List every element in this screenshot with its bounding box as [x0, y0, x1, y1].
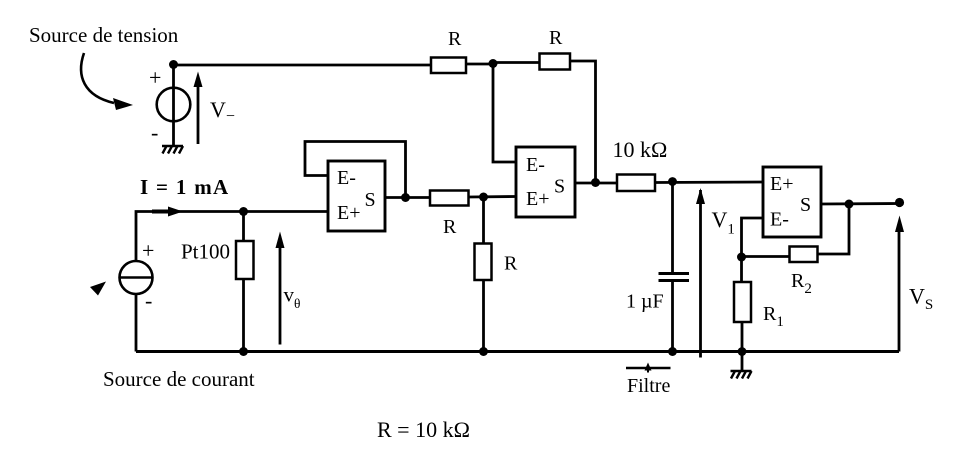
svg-text:R: R	[549, 27, 563, 49]
svg-text:10 kΩ: 10 kΩ	[613, 137, 668, 162]
wire top rail left (node A to resistor R)	[174, 64, 432, 67]
svg-text:E-: E-	[526, 154, 545, 176]
wire Pt100 to rail	[242, 279, 245, 352]
svg-text:S: S	[365, 189, 376, 211]
svg-text:E+: E+	[526, 188, 550, 210]
wire R middle to U2 E+	[469, 195, 517, 198]
node E (filter node)	[668, 177, 677, 186]
ground (below voltage source)	[162, 146, 183, 154]
wire node F down to R1	[740, 257, 743, 282]
label Source de courant	[103, 367, 255, 391]
current source minus sign	[145, 288, 152, 313]
wire vertical through voltage source to ground	[172, 65, 175, 146]
node B (top of Pt100)	[239, 207, 248, 216]
wire current source bottom to rail	[135, 294, 138, 352]
svg-text:E-: E-	[337, 167, 356, 189]
wire current source top to node B	[136, 212, 328, 262]
resistor R2	[790, 247, 818, 263]
node U2 output	[591, 178, 600, 187]
wire R2 to U3 output	[818, 204, 850, 254]
arrow V-	[197, 84, 200, 144]
svg-text:E+: E+	[337, 202, 361, 224]
current source circle	[120, 261, 153, 294]
wire vertical R to rail	[482, 280, 485, 352]
wire U2 output	[575, 182, 617, 185]
node capacitor bottom	[668, 347, 677, 356]
svg-text:Pt100: Pt100	[181, 240, 230, 264]
arrow VS	[898, 231, 901, 352]
svg-text:E-: E-	[770, 209, 789, 231]
wire U3 E- to feedback node	[742, 218, 764, 257]
label Filtre	[627, 375, 670, 397]
node R1 bottom	[738, 347, 747, 356]
svg-text:1 µF: 1 µF	[626, 291, 664, 313]
resistor R (middle horizontal)	[430, 191, 469, 206]
voltage source minus sign	[151, 120, 158, 145]
op-amp U3 box	[763, 167, 821, 237]
wire node D down to vertical R	[482, 197, 485, 244]
node vertical R bottom	[479, 347, 488, 356]
label I = 1 mA	[140, 175, 229, 199]
arrow Vtheta	[279, 245, 282, 345]
resistor 10 kOhm	[617, 175, 655, 192]
svg-text:S: S	[554, 176, 565, 198]
wire 10k to U3 E+	[655, 181, 763, 184]
node F (feedback node)	[737, 253, 746, 262]
node U3 output	[845, 200, 854, 209]
voltage source circle	[157, 88, 191, 122]
svg-text:R: R	[504, 253, 518, 275]
node output terminal	[895, 198, 904, 207]
svg-text:-: -	[145, 288, 152, 313]
current arrow on wire	[168, 207, 183, 217]
label Source de tension	[29, 23, 179, 47]
current source bar	[120, 276, 153, 279]
node Pt100 bottom	[239, 347, 248, 356]
node U1 output	[401, 193, 410, 202]
wire R1 to rail	[741, 322, 744, 352]
svg-text:Source de tension: Source de tension	[29, 23, 179, 47]
wire top between R and node C	[466, 63, 493, 66]
Filtre marker line	[626, 367, 671, 370]
svg-text:I = 1 mA: I = 1 mA	[140, 175, 229, 199]
arrow V1	[699, 190, 702, 358]
svg-text:R: R	[448, 28, 462, 50]
svg-text:+: +	[149, 65, 161, 90]
node A (top of voltage source)	[169, 60, 178, 69]
label R = 10 kOhm	[377, 417, 470, 442]
wire node C to resistor R top-right	[493, 61, 540, 64]
svg-text:S: S	[800, 194, 811, 216]
resistor R (top-left)	[431, 58, 466, 74]
svg-text:Source de courant: Source de courant	[103, 367, 255, 391]
resistor Pt100	[236, 241, 254, 279]
svg-text:R: R	[443, 216, 457, 238]
resistor R (top-right)	[540, 54, 571, 70]
wire node C down to U2 E- input	[493, 64, 516, 163]
wire node F to R2	[742, 255, 790, 258]
svg-text:+: +	[142, 238, 154, 263]
resistor R1	[734, 282, 751, 322]
svg-text:E+: E+	[770, 173, 794, 195]
annotation curved arrow to voltage source	[81, 53, 114, 103]
wire from R top-right down to U2 output node	[570, 61, 596, 183]
capacitor 1uF	[671, 182, 674, 274]
svg-text:-: -	[151, 120, 158, 145]
ground (below R1)	[741, 352, 744, 371]
wire U3 output	[821, 202, 900, 205]
wire U1 feedback loop	[305, 142, 406, 198]
svg-text:R = 10 kΩ: R = 10 kΩ	[377, 417, 470, 442]
node D	[479, 193, 488, 202]
wire node B down to Pt100	[242, 212, 245, 242]
op-amp U1 box	[328, 161, 385, 231]
wire U1 output	[385, 196, 431, 199]
op-amp U2 box	[516, 147, 575, 217]
svg-text:Filtre: Filtre	[627, 375, 670, 397]
node C	[489, 59, 498, 68]
current source plus sign	[142, 238, 154, 263]
voltage source V- plus sign	[149, 65, 161, 90]
bottom rail	[136, 350, 899, 353]
resistor R (vertical)	[475, 244, 492, 281]
annotation arrowhead at current source	[90, 282, 106, 296]
